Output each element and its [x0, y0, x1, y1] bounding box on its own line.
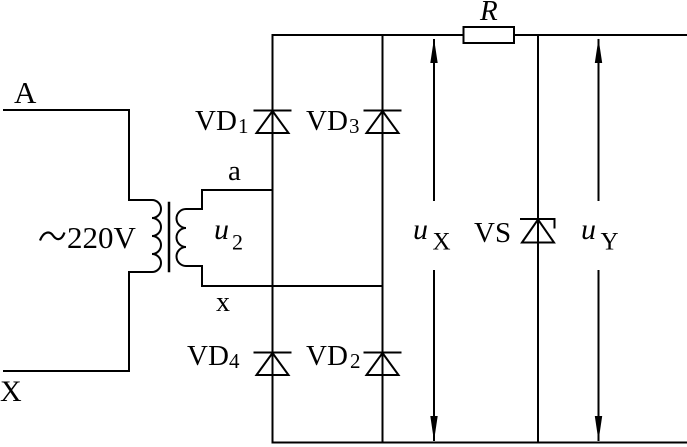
transformer T1 secondary winding [177, 209, 203, 266]
svg-text:VD: VD [187, 340, 229, 372]
svg-text:u: u [581, 213, 596, 246]
svg-text:220V: 220V [67, 220, 137, 255]
svg-text:A: A [14, 75, 37, 110]
transformer T1 core [168, 203, 171, 271]
arrow uX (double headed) [433, 40, 435, 440]
arrowhead uY top [595, 39, 602, 64]
wire: zener branch rail [537, 35, 539, 443]
svg-text:Y: Y [601, 229, 619, 256]
wire: bottom output bus [273, 442, 687, 444]
tilde of ~220V [40, 233, 65, 241]
svg-text:1: 1 [238, 114, 249, 138]
svg-text:VS: VS [474, 217, 511, 249]
svg-text:VD: VD [306, 340, 348, 372]
svg-text:u: u [413, 213, 428, 246]
arrow uY (double headed) [598, 40, 600, 440]
arrowhead uY bottom [595, 416, 602, 441]
wire: secondary terminal a to bridge left rail [202, 190, 272, 209]
diode VD1 [255, 111, 291, 134]
zener diode VS [521, 219, 555, 243]
svg-text:a: a [228, 155, 241, 187]
svg-text:3: 3 [349, 114, 360, 138]
diode VD4 [255, 353, 291, 376]
svg-text:u: u [214, 213, 229, 246]
wire: top output bus [273, 34, 687, 36]
svg-text:R: R [479, 0, 498, 27]
wire: bridge left rail (node for VD1/VD4) [272, 35, 274, 443]
arrowhead uX bottom [430, 416, 437, 441]
wire: secondary terminal x to bridge right rail [202, 266, 383, 286]
svg-text:X: X [433, 229, 451, 256]
svg-text:X: X [0, 375, 22, 408]
diode VD2 [365, 353, 401, 376]
wire: phase A input lead [4, 110, 129, 200]
arrowhead uX top [430, 39, 437, 64]
svg-text:VD: VD [195, 105, 237, 137]
wire: phase X input lead [4, 272, 129, 371]
svg-text:2: 2 [350, 349, 361, 373]
svg-text:x: x [216, 287, 230, 318]
transformer T1 primary winding [129, 200, 161, 272]
resistor R [464, 27, 515, 43]
diode VD3 [365, 111, 401, 134]
svg-text:4: 4 [229, 349, 240, 373]
svg-text:2: 2 [232, 230, 243, 255]
svg-text:VD: VD [306, 105, 348, 137]
wire: bridge right rail (node for VD3/VD2) [382, 35, 384, 443]
